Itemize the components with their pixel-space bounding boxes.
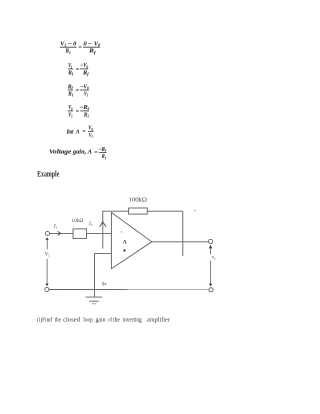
svg-text:V1: V1 — [84, 91, 88, 97]
svg-text:Rf: Rf — [88, 49, 96, 55]
wire: input indicator upper — [46, 240, 48, 250]
svg-text:R1: R1 — [65, 49, 71, 55]
wire: non-inverting input down to ground rail — [94, 253, 96, 297]
svg-text:Example: Example — [37, 168, 59, 178]
wire: output indicator lower — [210, 261, 212, 284]
stray mark — [193, 210, 196, 212]
svg-text:V1: V1 — [45, 251, 50, 257]
equation 3: Rf/R1 = -V0/V1 — [67, 84, 89, 97]
svg-text:I1: I1 — [53, 223, 58, 229]
wire: resistor R1 to op-amp inverting input — [87, 232, 112, 234]
svg-text:Rf: Rf — [82, 70, 89, 76]
svg-text:0v: 0v — [102, 281, 108, 287]
op-amp minus sign — [121, 231, 123, 233]
wire: feedback down to output node — [182, 211, 184, 256]
svg-text:R1: R1 — [67, 91, 73, 97]
svg-text:=: = — [76, 67, 80, 73]
wire: input terminal to resistor R1 — [50, 232, 73, 234]
svg-text:V1 − 0: V1 − 0 — [60, 42, 76, 48]
output terminal (right top) — [209, 239, 213, 243]
equation 2: V1/R1 = -V0/Rf — [67, 63, 89, 76]
svg-text:R1: R1 — [101, 154, 106, 160]
wire: op-amp output — [152, 241, 209, 243]
svg-text:10kΩ: 10kΩ — [72, 218, 84, 224]
ground bar 3 — [92, 303, 97, 305]
svg-text:=: = — [94, 150, 98, 156]
bottom right terminal — [209, 288, 213, 292]
bottom left terminal — [45, 287, 49, 291]
svg-text:R1: R1 — [83, 112, 89, 118]
svg-text:A: A — [123, 239, 127, 245]
equation 1: (V1-0)/R1 = (0-V0)/Rf — [60, 42, 100, 55]
wire: output indicator upper — [210, 248, 212, 254]
svg-text:0 − V0: 0 − V0 — [84, 42, 101, 48]
svg-text:V1: V1 — [68, 63, 72, 69]
current arrow I2 (up) — [100, 222, 106, 227]
svg-text:100kΩ: 100kΩ — [129, 197, 148, 204]
svg-text:(i)Findtheclosedloopgainofthei: (i)Findtheclosedloopgainoftheinvertingam… — [37, 316, 171, 323]
svg-text:R1: R1 — [67, 70, 73, 76]
v0 polarity arrow down — [209, 284, 212, 287]
op-amp plus sign — [123, 249, 125, 251]
svg-text:Voltagegain,A: Voltagegain,A — [49, 150, 92, 156]
V1 polarity arrow up — [46, 237, 49, 240]
ground bar 2 — [89, 300, 98, 302]
svg-text:ButA: ButA — [66, 130, 80, 136]
svg-text:Rf: Rf — [67, 84, 74, 90]
svg-text:V0: V0 — [68, 105, 72, 111]
svg-text:V0: V0 — [88, 126, 93, 132]
wire: feedback tap vertical at node — [102, 211, 104, 248]
svg-text:V1: V1 — [89, 133, 93, 139]
input terminal (left top) — [45, 231, 49, 235]
wire: feedback top left segment — [102, 210, 128, 212]
v0 polarity arrow up — [209, 245, 212, 249]
svg-text:=: = — [78, 45, 82, 51]
current arrow I1 — [58, 231, 61, 235]
resistor R1 10k box — [73, 229, 86, 239]
equation 5: But A = V0/V1 — [66, 126, 94, 139]
svg-text:V1: V1 — [68, 112, 72, 118]
svg-text:−Rf: −Rf — [80, 105, 90, 111]
V1 polarity arrow down — [45, 284, 48, 287]
wire: feedback top right segment — [147, 210, 183, 212]
equation 6: Voltage gain, A = -Rf/R1 — [49, 147, 107, 161]
feedback resistor Rf 100k box — [129, 208, 148, 214]
equation 4: V0/V1 = -Rf/R1 — [68, 105, 90, 118]
svg-text:=: = — [82, 129, 86, 135]
wire: bottom rail — [49, 289, 209, 291]
svg-text:vo: vo — [212, 255, 216, 260]
svg-text:=: = — [76, 88, 80, 94]
op-amp U1 triangle — [111, 213, 151, 269]
ground bar 1 — [86, 296, 103, 298]
svg-text:−V0: −V0 — [80, 63, 88, 69]
wire: input indicator lower — [46, 259, 48, 284]
wire: non-inverting input — [95, 252, 112, 254]
svg-text:−V0: −V0 — [80, 84, 89, 90]
svg-text:I2: I2 — [88, 221, 93, 227]
